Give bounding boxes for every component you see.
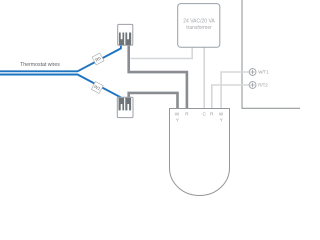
wire: R terminal to R/T2 screw (light) — [212, 85, 250, 109]
svg-text:Thermostat wires: Thermostat wires — [20, 62, 60, 68]
wire: transformer right lead to C terminal (light) — [203, 47, 205, 108]
svg-text:transformer: transformer — [186, 25, 212, 31]
terminal screw W/T1 — [249, 69, 256, 76]
wire: top connector to R terminal (dark) — [129, 45, 187, 109]
svg-text:24 VAC/20 VA: 24 VAC/20 VA — [183, 19, 215, 25]
svg-text:W/T1: W/T1 — [258, 70, 269, 75]
Nest Power Connector body — [170, 109, 230, 196]
svg-text:Y: Y — [220, 118, 223, 123]
wire label W1 (diamond on lower branch) — [91, 82, 103, 94]
svg-text:W: W — [175, 112, 180, 117]
connector top (push-in wire connector) — [118, 24, 133, 45]
wire: thermostat cable upper branch (blue) — [0, 46, 121, 72]
wire: bottom connector to W terminal (dark) — [129, 93, 178, 109]
svg-text:Y: Y — [176, 118, 179, 123]
svg-text:W: W — [219, 112, 224, 117]
connector bottom (push-in wire connector, flipped) — [117, 97, 133, 117]
wire: thermostat cable lower branch (blue) — [0, 75, 120, 99]
transformer T1 — [178, 4, 220, 48]
furnace panel — [242, 0, 300, 108]
wire label Rh (diamond on upper branch) — [92, 53, 104, 65]
svg-text:R/T2: R/T2 — [258, 83, 268, 88]
terminal screw R/T2 — [249, 82, 256, 89]
wire: W terminal to W/T1 screw (light) — [221, 72, 249, 109]
wire: transformer left lead to top connector (light) — [130, 47, 192, 58]
